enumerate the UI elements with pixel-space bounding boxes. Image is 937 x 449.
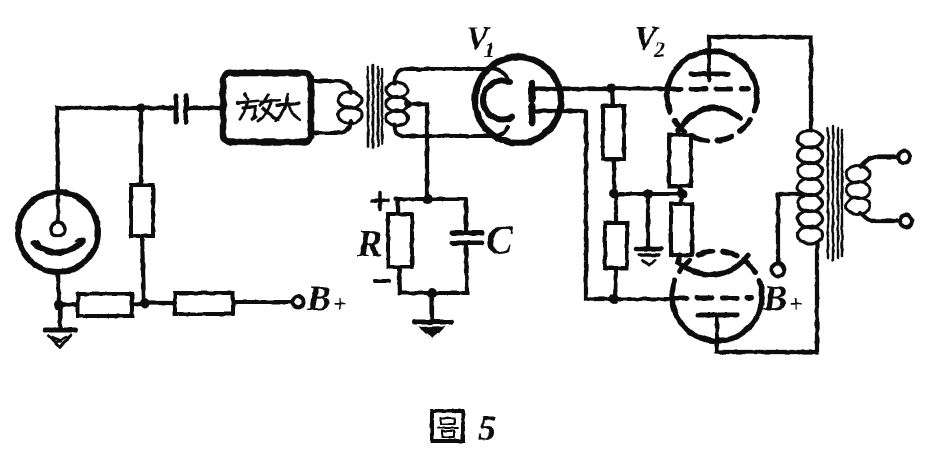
tube V2b cathode (678, 255, 748, 275)
node plate junction (606, 83, 616, 93)
transformer T2 secondary winding (846, 166, 870, 215)
amplifier block 放大 (223, 73, 311, 142)
wire V2a plate to output transformer (709, 37, 811, 131)
wire plate node to V2 grid (611, 88, 666, 89)
svg-text:R: R (356, 223, 382, 265)
wire T2 secondary bottom to terminal (860, 213, 900, 221)
wire T2 secondary top to terminal (860, 157, 898, 167)
tube V1 envelope (475, 57, 561, 143)
label R (356, 223, 382, 265)
wire mic bottom to ground node (58, 272, 59, 304)
label V1 (466, 20, 495, 62)
terminal B+ left (293, 297, 304, 308)
resistor R7 (lower cathode) (671, 194, 692, 255)
wire bottom rail (V1 cathode to V2b grid) (614, 297, 672, 301)
wire junction down to resistor R1 (139, 108, 143, 185)
transformer T1 secondary winding (386, 83, 408, 126)
tube V1 plate pin (532, 83, 611, 100)
wire top rail to capacitor C (464, 199, 468, 230)
wire capacitor to bottom rail (466, 246, 467, 293)
tube V2a cathode (678, 108, 740, 130)
resistor R5 (lower left divider) (605, 194, 627, 299)
wire R1 to bottom node (142, 236, 144, 303)
node mid rail right (677, 189, 687, 199)
node input junction (136, 103, 146, 113)
wire top rail to R (396, 199, 400, 214)
node mid rail center (643, 189, 653, 199)
wire mid rail (614, 192, 682, 196)
transformer T2 primary winding (798, 131, 823, 244)
terminal OUT top (898, 151, 910, 163)
char 大 (276, 95, 300, 121)
svg-text:1: 1 (484, 37, 495, 62)
node mid rail left (609, 189, 619, 199)
capacitor C (452, 233, 482, 243)
tube V2b plate (698, 315, 737, 341)
resistor R2 (horizontal) (78, 294, 132, 316)
label C (486, 217, 514, 262)
transformer T1 core (368, 65, 382, 148)
wire mic top to input node (57, 108, 141, 194)
resistor R1 (vertical, left) (131, 185, 153, 236)
wire RC top rail (396, 197, 466, 201)
tube V1 filament arc (483, 80, 512, 119)
wire node to resistor R2 (59, 304, 78, 305)
capacitor C1 (coupling) (176, 96, 186, 122)
node bias junction (140, 298, 150, 308)
node bottom rail junction (609, 294, 619, 304)
wire T1 tap down to RC node (408, 104, 427, 199)
svg-text:2: 2 (653, 37, 665, 62)
wire V2a cathode to R6 (678, 130, 679, 135)
tube V1 cathode pin (532, 106, 586, 123)
svg-text:B: B (762, 278, 787, 318)
wire T1 secondary bottom to V1 (395, 124, 508, 136)
tube V2b grid (dashed) (672, 296, 752, 301)
node RC top junction (423, 194, 433, 204)
wire R3 to B+ terminal (233, 300, 292, 304)
svg-text:+: + (333, 292, 347, 318)
resistor R6 (upper cathode) (669, 135, 691, 194)
wire T2 center tap to B+ terminal (778, 194, 800, 262)
wire node to resistor R3 (145, 301, 175, 305)
svg-text:+: + (789, 292, 803, 318)
ground GND3 (636, 194, 661, 265)
char 放 (237, 94, 279, 121)
resistor R (388, 214, 412, 267)
wire capacitor to amp box (189, 106, 222, 110)
ground GND2 (414, 293, 451, 340)
tube V2a grid (dashed) (666, 87, 748, 92)
node T1 secondary tap (404, 100, 412, 108)
tube V2a plate (691, 51, 728, 80)
tube V2a envelope (667, 51, 757, 141)
transformer T2 core (828, 126, 842, 260)
wire R2 to node (132, 302, 145, 306)
terminal B+ right (772, 264, 785, 277)
svg-text:5: 5 (478, 408, 496, 448)
wire T1 secondary top to V1 (395, 69, 507, 84)
node ground junction left (54, 300, 64, 310)
caption 圖 5 (432, 408, 496, 448)
wire junction to capacitor (141, 106, 172, 110)
svg-text:B: B (306, 278, 331, 318)
ground GND1 (45, 305, 75, 347)
resistor R4 (grid leak upper) (603, 89, 624, 194)
wire RC bottom rail (400, 291, 468, 295)
label B+ right (762, 278, 803, 318)
wire R to bottom rail (399, 267, 400, 293)
wire V2b plate to output transformer (717, 244, 817, 352)
node RC bottom junction (427, 288, 437, 298)
resistor R3 (horizontal) (175, 293, 233, 314)
label V2 (634, 20, 665, 62)
terminal OUT bottom (900, 215, 912, 227)
wire V1 cathode down to bottom rail (586, 111, 614, 299)
svg-text:C: C (486, 217, 514, 262)
tube V2b envelope (672, 251, 762, 341)
label B+ left (306, 278, 347, 318)
microphone MIC (18, 192, 98, 272)
transformer T1 primary winding (311, 81, 362, 133)
label + (R top) (372, 193, 388, 209)
label − (R bottom) (375, 279, 389, 283)
